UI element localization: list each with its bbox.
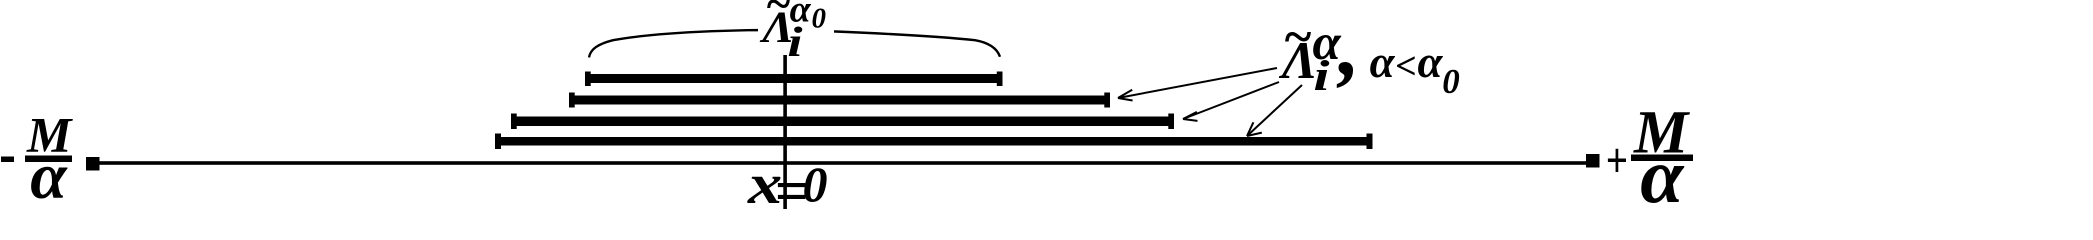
svg-text:i: i (787, 19, 803, 66)
right endpoint square marker (1586, 154, 1600, 168)
vertical line at x=0 (783, 55, 787, 209)
white backing for center label (758, 26, 834, 37)
interval bar 1 (innermost, under brace) (585, 72, 1003, 87)
interval bar 3 (511, 114, 1174, 130)
label Lambda~_i^alpha, alpha&lt;alpha_0 (right, arrows source) (1278, 0, 1460, 101)
svg-text:0: 0 (803, 156, 828, 209)
interval bar 2 (569, 93, 1110, 108)
interval bar 4 (outermost) (495, 134, 1373, 150)
label x=0 (747, 152, 828, 223)
svg-text:α: α (1418, 37, 1444, 87)
label +M/alpha (right axis endpoint) (1606, 100, 1694, 220)
svg-text:i: i (1313, 52, 1329, 100)
svg-text:~: ~ (1283, 10, 1312, 66)
svg-text:α: α (1640, 132, 1685, 209)
svg-text:α: α (1370, 37, 1396, 87)
svg-text:α: α (30, 140, 68, 209)
axis line (95, 161, 1590, 165)
label Lambda~_i^alpha_0 (center, above brace) (759, 0, 826, 65)
svg-text:,: , (1337, 0, 1361, 93)
arrow to bar 3 right end (1183, 82, 1279, 121)
arrow to bar 4 (1247, 85, 1302, 136)
svg-text:0: 0 (1442, 62, 1460, 101)
svg-text:<: < (1395, 45, 1417, 87)
left endpoint square marker (86, 157, 100, 171)
label -M/alpha (left axis endpoint) (1, 107, 73, 214)
arrow to bar 2 right end (1118, 68, 1277, 101)
svg-text:+: + (1606, 132, 1628, 188)
svg-text:0: 0 (812, 3, 827, 35)
brace over bar 1 (589, 30, 1000, 57)
